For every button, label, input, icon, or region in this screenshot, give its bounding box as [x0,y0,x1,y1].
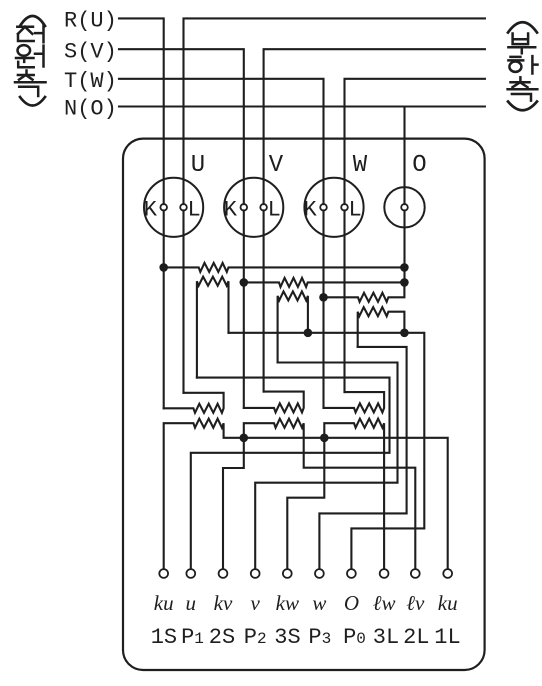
resistor R2 upper U shunt link [197,277,229,378]
terminal 3S circle [283,569,292,578]
CT U circle [144,178,203,237]
CT V K terminal pin [241,204,248,211]
wire S source to K of CT V [119,49,244,204]
wire R load side from L of CT U [184,18,485,204]
resistor R4 upper V shunt link [278,291,308,362]
wire w voltage tap to P3 terminal [319,347,406,569]
label source side ) paren (rotated) [20,97,45,106]
wire S load side from L of CT V [264,49,485,204]
svg-text:L: L [348,198,361,223]
svg-text:w: w [312,591,326,615]
CT U K terminal pin [160,204,167,211]
resistor R9 lower V series link [244,392,304,413]
label source side char won [16,45,44,67]
wire T load side from L of CT W [345,79,485,204]
svg-text:3S: 3S [274,625,300,650]
wire L_V vertical [263,210,265,391]
svg-text:K: K [303,198,317,223]
node junction R6 to common line [400,329,409,338]
svg-text:u: u [186,591,197,615]
svg-text:2S: 2S [209,625,235,650]
label load side ) paren (rotated) [508,102,537,111]
svg-text:ℓv: ℓv [406,591,425,615]
label source side char cheuk [15,71,46,97]
svg-text:W: W [353,152,368,179]
svg-text:N(O): N(O) [64,97,117,122]
label source side ( paren (rotated) [20,16,45,26]
terminal P0 circle [347,569,356,578]
CT O terminal pin [401,204,408,211]
node K_U tap junction [159,263,168,272]
wire u voltage tap to P1 terminal [191,378,390,569]
svg-text:ku: ku [438,591,458,615]
label load side char cheuk [508,77,538,100]
wire R source to K terminal of CT U [119,18,164,204]
CT V circle [224,178,283,237]
CT O circle (neutral) [384,187,424,227]
svg-text:R(U): R(U) [64,9,117,34]
resistor R7 lower U series link [164,393,224,413]
svg-text:O: O [412,152,426,179]
wire K_W vertical [322,210,324,408]
resistor R5 upper W series link [324,282,405,301]
wire O drop from N line to O terminal [403,107,405,205]
terminal 3L circle [380,569,389,578]
svg-text:3L: 3L [373,625,399,650]
node K_W tap junction [319,293,328,302]
node junction R1 to O wire [400,263,409,272]
terminal P1 circle [186,569,195,578]
resistor R6 upper W shunt link [358,307,405,347]
svg-text:kv: kv [214,591,233,615]
wire common line to P0 terminal [229,333,425,569]
terminal P2 circle [251,569,260,578]
svg-text:P1: P1 [181,625,204,650]
svg-text:V: V [269,152,284,179]
label source side char jeon [17,25,43,42]
terminal P3 circle [315,569,324,578]
svg-text:1S: 1S [151,625,177,650]
svg-text:U: U [191,152,205,179]
svg-text:K: K [224,198,238,223]
resistor R11 lower W series link [324,392,385,412]
svg-text:ku: ku [154,591,174,615]
CT U L terminal pin [180,204,187,211]
wire K_V vertical [243,210,245,408]
svg-text:L: L [268,198,281,223]
svg-text:S(V): S(V) [64,39,117,64]
resistor R3 upper V series link [244,278,405,287]
CT W circle [304,178,363,237]
label load side char bu [508,34,535,54]
node K_V tap junction [240,278,249,287]
terminal 1S circle [159,569,168,578]
node junction R4 to common line [304,329,313,338]
svg-text:L: L [187,198,200,223]
wire N neutral line [119,105,485,107]
node junction 2S branch on 1L line [240,434,249,443]
resistor R12 lower W current link 3S-3L [287,419,384,569]
svg-text:P0: P0 [343,625,366,650]
terminal 1L circle [443,569,452,578]
svg-text:P2: P2 [244,625,267,650]
svg-text:T(W): T(W) [64,69,117,94]
svg-text:O: O [344,591,359,615]
wire v voltage tap to P2 terminal [255,363,397,569]
node junction R3 to O wire [400,278,409,287]
svg-text:v: v [251,591,261,615]
resistor R8 lower U current link 1S-1L [164,419,448,569]
label load side char ha [508,56,537,73]
CT W K terminal pin [320,204,327,211]
svg-text:P3: P3 [308,625,331,650]
wire L_W vertical [343,210,345,392]
node junction 3S branch on 1L line [320,434,329,443]
svg-text:kw: kw [276,591,299,615]
svg-text:2L: 2L [403,625,429,650]
wire K_U vertical [163,210,165,408]
label load side ( paren (rotated) [508,22,537,32]
wire O vertical below CT O [403,210,405,282]
terminal block outline [123,139,485,670]
wire T source to K of CT W [119,79,324,204]
svg-text:ℓw: ℓw [373,591,396,615]
terminal 2S circle [219,569,228,578]
resistor R10 lower V current link 2S-2L [223,419,415,569]
terminal 2L circle [411,569,420,578]
resistor R1 upper U series link [164,263,405,272]
svg-text:1L: 1L [434,625,460,650]
CT V L terminal pin [260,204,267,211]
svg-text:K: K [144,198,158,223]
CT W L terminal pin [341,204,348,211]
wire L_U vertical [182,210,184,392]
